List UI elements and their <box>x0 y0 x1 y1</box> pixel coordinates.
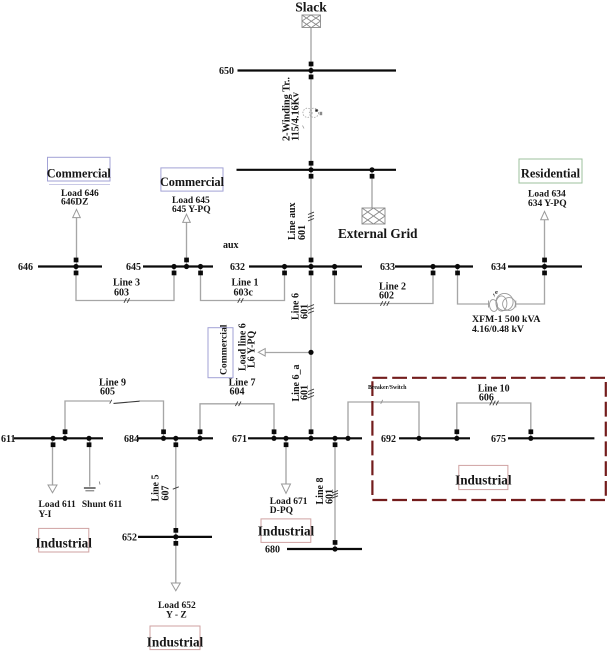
svg-text:603: 603 <box>114 288 129 299</box>
svg-text:Y - Z: Y - Z <box>166 611 187 621</box>
svg-text:603c: 603c <box>234 288 254 299</box>
load line 6 arrow <box>258 349 265 356</box>
svg-text:671: 671 <box>232 434 247 445</box>
svg-text:604: 604 <box>230 387 245 398</box>
svg-text:Shunt 611: Shunt 611 <box>82 500 123 510</box>
load 646 arrow <box>73 209 81 217</box>
phase ticks line 8 <box>332 491 338 499</box>
svg-text:Load 611: Load 611 <box>39 500 76 510</box>
wire line 7 (604) <box>200 404 274 439</box>
svg-text:650: 650 <box>219 66 234 77</box>
svg-text:601: 601 <box>300 304 311 319</box>
phase tick line 5 <box>173 487 179 489</box>
phase ticks line 3 <box>124 298 130 303</box>
junction node on line 6 <box>308 350 313 355</box>
svg-text:aux: aux <box>223 240 239 251</box>
svg-text:L6 Y-PQ: L6 Y-PQ <box>247 330 258 368</box>
svg-text:External Grid: External Grid <box>338 226 418 241</box>
svg-text:645: 645 <box>126 262 141 273</box>
svg-text:605: 605 <box>100 387 115 398</box>
wire load 646 drop <box>76 217 78 264</box>
svg-text:115/4.16Kv: 115/4.16Kv <box>291 91 302 141</box>
wire slack to bus 650 <box>310 28 312 71</box>
svg-text:684: 684 <box>124 434 139 445</box>
svg-text:634 Y-PQ: 634 Y-PQ <box>528 199 567 209</box>
svg-text:601: 601 <box>297 225 308 240</box>
load 671 arrow <box>282 484 291 493</box>
svg-text:602: 602 <box>379 290 394 301</box>
transformer T1 2-winding symbol <box>303 108 319 117</box>
box Commercial 1 <box>47 157 112 184</box>
bus 675 <box>508 437 594 439</box>
bus 646 <box>38 265 102 267</box>
box Industrial 3 (mid) <box>258 519 315 543</box>
wire load 671 drop <box>285 441 287 484</box>
svg-text:633: 633 <box>380 262 395 273</box>
load 652 arrow <box>171 583 180 591</box>
svg-text:Commercial: Commercial <box>219 324 230 375</box>
bus 652 <box>138 536 212 538</box>
svg-text:692: 692 <box>381 434 396 445</box>
wire line 3 (603) <box>76 267 174 301</box>
wire line 6_a (601) <box>310 353 312 439</box>
svg-text:Commercial: Commercial <box>47 167 112 181</box>
load 611 arrow <box>48 485 57 493</box>
phase tick line 9 <box>110 400 112 404</box>
box Industrial 2 (bottom) <box>147 626 204 650</box>
wire line 10 (606) <box>457 403 531 438</box>
svg-text:Industrial: Industrial <box>455 473 512 488</box>
box Industrial 4 (breaker zone) <box>455 465 512 489</box>
wire line 8 (601) <box>334 438 336 549</box>
box Industrial 1 <box>35 528 92 552</box>
phase ticks line 10 <box>490 401 499 406</box>
svg-text:607: 607 <box>161 486 172 501</box>
load 645 arrow <box>183 214 191 222</box>
wire external grid drop <box>371 170 373 208</box>
bus 692 <box>399 437 470 439</box>
phase ticks line 6 <box>308 305 314 314</box>
svg-text:601: 601 <box>300 385 311 400</box>
transformer XFM-1 symbol <box>489 293 516 312</box>
wire bus 650 to aux bus <box>310 71 312 170</box>
wire load 645 drop <box>186 222 188 264</box>
box Residential <box>519 159 582 183</box>
svg-text:632: 632 <box>230 262 245 273</box>
svg-text:680: 680 <box>265 545 280 556</box>
svg-text:Commercial: Commercial <box>160 175 225 189</box>
wire line 2 (602) <box>335 267 433 304</box>
phase ticks line 6_a <box>308 389 314 398</box>
phase ticks line aux <box>308 212 314 221</box>
svg-text:Industrial: Industrial <box>258 524 315 539</box>
wire line 5 (607) <box>175 438 177 537</box>
shunt 611 capacitor plates <box>84 487 96 489</box>
wire load 652 drop <box>175 540 177 583</box>
bus 650 <box>238 69 397 71</box>
bus 680 <box>287 548 362 550</box>
box Commercal rotated <box>208 324 233 377</box>
wire transformer XFM-1 branch 633 side <box>458 267 490 305</box>
bus 611 <box>14 437 103 439</box>
svg-text:606: 606 <box>479 393 494 404</box>
wire load 634 drop <box>544 220 546 264</box>
svg-text:4.16/0.48 kV: 4.16/0.48 kV <box>472 324 524 335</box>
svg-text:Industrial: Industrial <box>35 536 92 551</box>
svg-text:Load 634: Load 634 <box>528 189 566 199</box>
switch on line 9 <box>114 401 140 403</box>
external grid symbol <box>362 208 385 224</box>
wire line 9 (605) <box>65 401 164 438</box>
external grid G1 Slack symbol <box>302 15 321 28</box>
bus 671 <box>248 437 362 439</box>
svg-text:601: 601 <box>325 489 336 504</box>
wire line aux (601) <box>310 170 312 267</box>
svg-text:634: 634 <box>491 262 506 273</box>
phase ticks line 1 <box>238 298 244 303</box>
bus 645 <box>143 265 213 267</box>
breaker mark on tie wire <box>381 400 383 404</box>
wire line 6 (601) <box>310 267 312 353</box>
svg-text:Load 652: Load 652 <box>158 601 196 611</box>
phase ticks line 2 <box>380 301 389 306</box>
box Commercial 2 <box>160 168 225 191</box>
svg-text:646: 646 <box>18 262 33 273</box>
phase ticks line 7 <box>235 402 241 407</box>
wire load line 6 branch <box>266 352 312 354</box>
svg-text:675: 675 <box>491 434 506 445</box>
wire transformer XFM-1 branch 634 side <box>516 267 545 305</box>
wire shunt 611 drop <box>89 441 91 487</box>
bus 634 <box>508 265 582 267</box>
wire load 611 drop <box>52 441 54 485</box>
svg-text:Residential: Residential <box>521 166 581 180</box>
svg-text:652: 652 <box>122 533 137 544</box>
svg-text:Breaker/Switch: Breaker/Switch <box>368 385 407 391</box>
svg-text:611: 611 <box>1 434 15 445</box>
svg-text:e: e <box>495 289 498 296</box>
bus 633 <box>395 265 473 267</box>
bus 632 <box>249 265 362 267</box>
wire line 1 (603c) <box>201 267 285 301</box>
svg-text:645 Y-PQ: 645 Y-PQ <box>172 205 211 215</box>
svg-text:Y-I: Y-I <box>39 510 52 520</box>
bus 684 <box>138 437 214 439</box>
svg-text:Slack: Slack <box>295 0 327 15</box>
svg-text:646DZ: 646DZ <box>61 198 88 208</box>
bus aux <box>237 169 397 171</box>
load 634 arrow <box>541 211 549 219</box>
svg-text:D-PQ: D-PQ <box>270 506 293 516</box>
wire breaker/switch tie 671-692 <box>348 402 419 438</box>
dashed breaker zone box <box>372 378 605 500</box>
svg-text:Industrial: Industrial <box>147 634 204 649</box>
